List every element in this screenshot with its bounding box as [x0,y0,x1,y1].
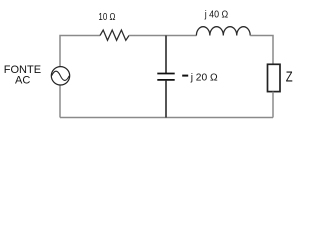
wire top-left (corner from source top to resistor) [60,36,100,67]
resistor 10Ω [100,30,129,40]
label -j 20 Ω (bold minus) [182,73,218,84]
wire bottom rail [60,117,273,119]
svg-text:10 Ω: 10 Ω [98,12,115,23]
inductor j40Ω [196,27,250,36]
load Z box [268,64,281,91]
svg-text:AC: AC [15,75,30,87]
wire capacitor bottom to bottom rail [165,81,167,118]
wire inductor to right corner [250,36,273,65]
capacitor -j20Ω plates [157,74,174,80]
svg-text:j 40 Ω: j 40 Ω [204,9,229,20]
label FONTE AC [4,64,41,87]
svg-text:Z: Z [286,68,293,85]
AC source (FONTE AC) [51,67,69,85]
wire source bottom to bottom rail [59,85,61,117]
wire Z box bottom to bottom rail [272,92,274,118]
wire node to capacitor top [165,36,167,74]
svg-text:j 20 Ω: j 20 Ω [190,73,218,84]
wire resistor to inductor (through node) [129,35,196,37]
